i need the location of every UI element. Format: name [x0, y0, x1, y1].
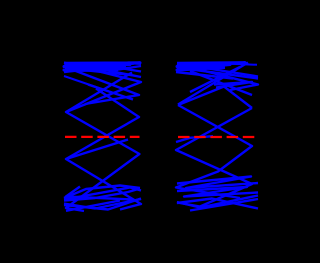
LEFT red dashed target line: [65, 136, 140, 138]
RIGHT PANEL blue trajectories (axes x 176-258, y 62-211): [176, 63, 258, 211]
RIGHT red dashed target line: [178, 136, 256, 138]
LEFT PANEL blue trajectories (axes x 63-141, y 62-211): [64, 63, 141, 212]
